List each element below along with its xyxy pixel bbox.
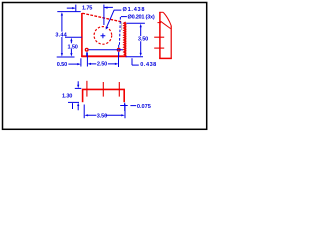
svg-text:1.50: 1.50 bbox=[68, 44, 78, 50]
dimension 1.30 top extension line bbox=[75, 87, 82, 89]
dimension 3.50 right bottom extension line bbox=[126, 56, 143, 58]
dimension 0.50 extension line (plate edge) bbox=[80, 58, 82, 66]
svg-text:Ø1.438: Ø1.438 bbox=[123, 7, 145, 13]
bottom view hole tick 1 bbox=[86, 81, 88, 97]
bottom view left leg bbox=[82, 89, 84, 102]
bottom view top bar bbox=[82, 88, 125, 90]
left hole center line vertical bbox=[86, 52, 88, 56]
side view right edge bbox=[170, 25, 172, 58]
leader dia 1.438 bbox=[106, 10, 121, 29]
front view left edge bbox=[81, 13, 83, 57]
dimension 1.30 bottom extension line bbox=[68, 101, 79, 103]
dimension 3.44 bottom extension line bbox=[57, 56, 75, 58]
svg-text:3.50: 3.50 bbox=[138, 37, 148, 43]
svg-text:0.438: 0.438 bbox=[140, 62, 156, 68]
side view chamfer diagonal bbox=[161, 21, 171, 28]
leader dia 0.201 horizontal bbox=[121, 16, 127, 18]
side view top curve bbox=[163, 12, 171, 25]
dimension 1.75 extension line left bbox=[75, 5, 77, 12]
dimension 1.75 extension line right bbox=[103, 5, 105, 25]
dimension 1.75 line and arrows bbox=[67, 6, 113, 9]
dimension 0.075 extension vertical bbox=[124, 103, 126, 111]
front view right serrated edge bbox=[124, 22, 126, 56]
svg-text:3.50: 3.50 bbox=[97, 114, 107, 120]
side view tick lower bbox=[154, 47, 164, 49]
bottom view right leg bbox=[123, 89, 125, 102]
right small hole bbox=[117, 48, 120, 51]
dimension 0.075 tick bbox=[120, 105, 128, 107]
leader dia 0.201 vertical dashed bbox=[119, 17, 120, 46]
svg-text:1.75: 1.75 bbox=[82, 5, 92, 11]
side view bottom edge bbox=[159, 57, 172, 59]
dimension 3.50 bottom line and arrows bbox=[87, 114, 121, 116]
extension line below right hole bbox=[118, 52, 120, 67]
dimension 0.438 leader horizontal bbox=[132, 64, 139, 66]
svg-text:0.50: 0.50 bbox=[57, 62, 67, 68]
dimension 0.075 leader bbox=[130, 105, 136, 107]
dimension 3.44 line and arrows bbox=[61, 15, 63, 54]
bottom view hole tick 3 bbox=[118, 82, 120, 97]
shared extension line below left hole bbox=[86, 52, 88, 66]
extra tick at 1.30 base bbox=[72, 103, 74, 109]
dimension 1.30 line and arrows bbox=[77, 81, 79, 110]
side view tick middle bbox=[154, 36, 164, 38]
dimension 0.438 leader vertical bbox=[131, 58, 133, 65]
hole center line horizontal bbox=[89, 49, 123, 51]
front view serrated edge spine bbox=[125, 23, 127, 56]
circle center mark bbox=[101, 33, 106, 38]
side view top edge tick bbox=[159, 11, 163, 13]
drawing frame border bbox=[3, 3, 207, 130]
dimension 3.44 top extension line bbox=[57, 11, 80, 13]
dimension 3.50 right line and arrows bbox=[140, 27, 142, 54]
svg-text:1.30: 1.30 bbox=[62, 94, 72, 100]
large dashed circle (bore) bbox=[94, 27, 112, 45]
side view left edge bbox=[159, 12, 161, 59]
bottom view hole tick 2 bbox=[102, 82, 104, 97]
dimension 1.50 line and arrows bbox=[70, 40, 72, 53]
dimension 0.075 arrowhead bbox=[124, 103, 126, 106]
dimension 1.50 extension line bbox=[65, 36, 82, 38]
svg-text:2.50: 2.50 bbox=[97, 62, 107, 68]
svg-text:0.075: 0.075 bbox=[137, 104, 151, 110]
side view tick upper bbox=[158, 22, 162, 24]
front view bottom edge bbox=[81, 55, 126, 57]
dimension 3.50 bottom right extension line bbox=[124, 105, 126, 119]
gray hidden edge at serration top bbox=[121, 22, 123, 30]
dimension 2.50 line segments and arrows bbox=[91, 63, 116, 65]
left small hole bbox=[85, 48, 88, 51]
right hole center line vertical bbox=[118, 45, 120, 57]
dimension 3.50 bottom left extension line bbox=[83, 105, 85, 119]
front view top slanted edge bbox=[82, 13, 121, 22]
dimension 0.50 line and arrow bbox=[68, 63, 77, 65]
dimension 3.50 right top extension line bbox=[126, 22, 144, 24]
svg-text:Ø0.201 (3x): Ø0.201 (3x) bbox=[128, 15, 155, 21]
